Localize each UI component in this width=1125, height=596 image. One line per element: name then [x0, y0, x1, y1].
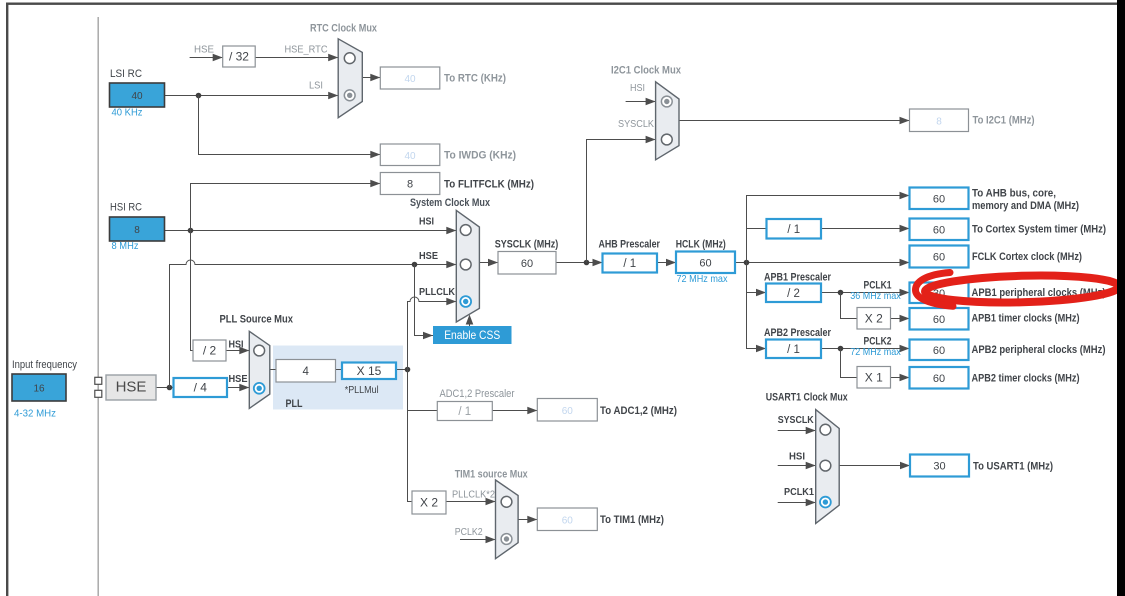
- window right black strip: [1117, 0, 1125, 596]
- source box HSE: [106, 375, 156, 400]
- svg-text:PLL Source Mux: PLL Source Mux: [220, 313, 294, 325]
- svg-text:APB2 Prescaler: APB2 Prescaler: [764, 327, 832, 339]
- wire HCLK to FCLK (net HCLK): [735, 262, 910, 264]
- svg-text:TIM1 source Mux: TIM1 source Mux: [455, 469, 528, 481]
- wire ADC prescaler output: [492, 410, 537, 412]
- svg-text:/ 1: / 1: [623, 258, 636, 270]
- arrowhead into To TIM1 box: [527, 516, 537, 524]
- output box AHB bus value 60: [910, 188, 969, 210]
- junction HSE split: [167, 385, 173, 391]
- svg-text:RTC Clock Mux: RTC Clock Mux: [310, 23, 377, 35]
- radio RTC HSE_RTC (unselected): [344, 53, 355, 64]
- svg-text:APB1 Prescaler: APB1 Prescaler: [764, 272, 832, 284]
- wire X1 output: [891, 377, 910, 379]
- wire Enable CSS to System mux: [469, 316, 471, 327]
- arrowhead into To USART1 box: [900, 462, 910, 470]
- arrowhead into APB2 timer box: [900, 374, 910, 382]
- svg-text:/ 1: / 1: [787, 224, 800, 236]
- radio I2C1 SYSCLK (unselected): [661, 134, 672, 145]
- annotation red ellipse around APB1 peripheral clocks: [916, 273, 1120, 307]
- svg-text:FCLK Cortex clock (MHz): FCLK Cortex clock (MHz): [972, 251, 1082, 263]
- svg-text:HSE_RTC: HSE_RTC: [285, 44, 328, 56]
- arrowhead HSE into PLL source mux: [239, 384, 249, 392]
- svg-text:/ 32: / 32: [229, 50, 249, 64]
- wire divider to PLLMul: [336, 369, 343, 371]
- wire APB1 prescaler output (net PCLK1): [821, 292, 910, 294]
- prescaler /2 (PLL HSI divider): [193, 340, 226, 361]
- svg-text:memory and DMA (MHz): memory and DMA (MHz): [972, 200, 1079, 212]
- junction PCLK1 split: [838, 290, 844, 296]
- svg-text:PCLK2: PCLK2: [455, 526, 483, 538]
- svg-text:4: 4: [303, 366, 310, 378]
- wire SYSCLK to AHB prescaler: [556, 262, 603, 264]
- svg-text:HSI: HSI: [229, 339, 244, 351]
- junction HSE to CSS split: [412, 262, 418, 268]
- svg-text:/ 4: / 4: [194, 381, 208, 395]
- source box HSI RC value 8: [110, 217, 165, 241]
- arrowhead HSE into System mux: [446, 261, 456, 269]
- arrowhead HSI into USART1 mux: [806, 462, 816, 470]
- input frequency box value 16: [12, 374, 66, 401]
- svg-text:To USART1 (MHz): To USART1 (MHz): [973, 461, 1053, 473]
- prescaler /4 (PLL HSE divider): [174, 378, 228, 397]
- box SYSCLK value 60: [498, 252, 556, 275]
- arrowhead into APB1 timer box: [900, 315, 910, 323]
- wire PLLMul output: [396, 369, 408, 371]
- wire X2 output: [891, 318, 910, 320]
- wire PCLK1 down to X2: [841, 293, 858, 319]
- radio TIM1 PCLK2 (selected): [501, 534, 512, 545]
- arrowhead PLLCLK into System mux: [446, 298, 456, 306]
- svg-text:Input frequency: Input frequency: [12, 359, 78, 371]
- svg-text:To AHB bus, core,: To AHB bus, core,: [972, 188, 1056, 200]
- wire LSI to IWDG: [199, 96, 381, 155]
- wire Cortex prescaler output: [821, 228, 909, 230]
- svg-text:HSI: HSI: [419, 216, 434, 228]
- svg-text:To Cortex System timer (MHz): To Cortex System timer (MHz): [972, 224, 1106, 236]
- svg-text:LSI RC: LSI RC: [110, 68, 142, 80]
- arrowhead HSI into PLL source mux: [239, 347, 249, 355]
- wire HSE up to System mux (net HSE): [170, 260, 457, 388]
- output box To IWDG value 40: [380, 144, 440, 166]
- multiplier X2 (TIM1): [412, 491, 446, 514]
- svg-text:X 2: X 2: [420, 496, 438, 510]
- panel top border: [6, 3, 1118, 5]
- svg-text:16: 16: [33, 384, 45, 395]
- wire HSI down to /2 prescaler: [191, 231, 194, 351]
- prescaler ADC1,2 /1: [437, 402, 492, 421]
- svg-text:60: 60: [933, 345, 945, 357]
- multiplier X1 (APB2 timers): [857, 367, 891, 389]
- wire PCLK2 stub to TIM1 mux: [460, 539, 496, 541]
- arrowhead into To I2C1 box: [900, 117, 910, 125]
- wire /2 to PLL source mux: [226, 350, 249, 352]
- arrowhead SYSCLK into USART1 mux: [806, 427, 816, 435]
- arrowhead PCLK1 into USART1 mux: [806, 499, 816, 507]
- svg-text:HCLK (MHz): HCLK (MHz): [676, 239, 726, 251]
- wire AHB prescaler to HCLK: [657, 262, 676, 264]
- svg-text:60: 60: [562, 406, 574, 417]
- arrowhead into APB1 prescaler: [756, 289, 766, 297]
- prescaler APB2 /1: [766, 340, 821, 359]
- svg-text:40 KHz: 40 KHz: [112, 107, 143, 119]
- arrowhead into To RTC box: [370, 74, 380, 82]
- output box APB2 peripheral value 60: [910, 340, 969, 361]
- svg-text:8 MHz: 8 MHz: [112, 240, 139, 252]
- arrowhead into APB1 peripheral box: [900, 289, 910, 297]
- svg-text:USART1 Clock Mux: USART1 Clock Mux: [766, 392, 848, 404]
- svg-text:40: 40: [131, 91, 143, 102]
- mux System Clock Mux: [456, 210, 479, 322]
- junction PLLCLK split: [405, 367, 411, 373]
- svg-text:8: 8: [407, 179, 413, 191]
- wire I2C1 mux output: [679, 120, 910, 122]
- wire /4 to PLL source mux: [227, 387, 249, 389]
- svg-text:X 2: X 2: [865, 311, 883, 325]
- output box To ADC1,2 value 60: [537, 399, 597, 422]
- radio TIM1 PLLCLK*2 (unselected): [501, 496, 512, 507]
- svg-text:PLLCLK: PLLCLK: [419, 286, 455, 298]
- svg-text:60: 60: [562, 515, 574, 526]
- junction LSI split: [196, 93, 202, 99]
- mux I2C1 Clock Mux: [656, 82, 679, 160]
- svg-text:To TIM1 (MHz): To TIM1 (MHz): [600, 514, 664, 526]
- wire HSI stub to USART1 mux: [778, 465, 816, 467]
- svg-text:SYSCLK (MHz): SYSCLK (MHz): [495, 239, 559, 251]
- svg-text:SYSCLK: SYSCLK: [778, 414, 814, 426]
- junction PCLK2 split: [838, 346, 844, 352]
- wire HSI to FLITFCLK: [191, 184, 381, 231]
- PLL multiplier box X15: [342, 363, 396, 380]
- port square upper on HSE input: [95, 377, 102, 384]
- output box APB1 peripheral value 30: [910, 283, 969, 304]
- wire USART1 mux output: [839, 465, 910, 467]
- svg-text:To ADC1,2 (MHz): To ADC1,2 (MHz): [600, 405, 677, 417]
- wire PLLCLK branch to ADC prescaler: [408, 410, 438, 412]
- radio USART1 SYSCLK (unselected): [820, 424, 831, 435]
- svg-text:36 MHz max: 36 MHz max: [850, 290, 901, 302]
- arrowhead into AHB bus box: [900, 192, 910, 200]
- PLL region background: [273, 346, 403, 410]
- arrowhead SYSCLK into I2C1 mux: [646, 136, 656, 144]
- svg-text:APB2 peripheral clocks (MHz): APB2 peripheral clocks (MHz): [972, 344, 1106, 356]
- svg-text:60: 60: [521, 258, 533, 270]
- radio System PLLCLK (selected): [460, 296, 471, 307]
- svg-text:40: 40: [404, 151, 416, 162]
- svg-text:40: 40: [404, 74, 416, 85]
- wire PLLCLK up to System mux: [408, 297, 457, 370]
- svg-text:PLLCLK*2: PLLCLK*2: [452, 489, 495, 501]
- output box APB1 timer value 60: [910, 308, 969, 330]
- junction SYSCLK to I2C1 split: [584, 260, 590, 266]
- wire HSE stub to /32: [190, 57, 223, 59]
- arrowhead into Cortex timer box: [900, 225, 910, 233]
- prescaler Cortex /1: [767, 219, 822, 239]
- svg-text:60: 60: [933, 252, 945, 264]
- output box APB2 timer value 60: [910, 367, 969, 389]
- svg-text:APB1 timer clocks (MHz): APB1 timer clocks (MHz): [972, 313, 1080, 325]
- wire System mux output SYSCLK: [479, 262, 498, 264]
- output box To RTC value 40: [380, 67, 440, 89]
- wire PLLCLK down to TIM1 X2: [408, 370, 413, 502]
- mux USART1 Clock Mux: [816, 410, 840, 524]
- wire HCLK up to AHB bus clock: [747, 196, 910, 263]
- arrowhead into AHB prescaler: [593, 259, 603, 267]
- svg-text:/ 1: / 1: [458, 406, 471, 418]
- wire branch to APB1 prescaler: [747, 292, 767, 294]
- svg-text:To FLITFCLK (MHz): To FLITFCLK (MHz): [444, 179, 534, 191]
- wire branch to Cortex prescaler: [747, 228, 767, 230]
- wire HSE down to Enable CSS: [415, 265, 434, 336]
- svg-text:PLL: PLL: [286, 398, 303, 410]
- svg-text:72 MHz max: 72 MHz max: [850, 346, 901, 358]
- wire /32 to RTC mux (net HSE_RTC): [255, 57, 338, 59]
- arrowhead into /32 box: [213, 54, 223, 62]
- arrowhead into SYSCLK box: [488, 259, 498, 267]
- output box Cortex timer value 60: [910, 219, 969, 241]
- svg-text:/ 2: / 2: [203, 344, 217, 358]
- radio USART1 HSI (unselected): [820, 460, 831, 471]
- arrowhead CSS up into System mux: [466, 315, 474, 325]
- svg-text:ADC1,2 Prescaler: ADC1,2 Prescaler: [440, 388, 515, 400]
- svg-text:8: 8: [936, 116, 942, 127]
- svg-text:PCLK1: PCLK1: [784, 486, 814, 498]
- svg-text:HSI: HSI: [630, 82, 645, 94]
- radio System HSE (unselected): [460, 259, 471, 270]
- svg-text:60: 60: [699, 257, 711, 269]
- arrowhead LSI into RTC mux: [328, 92, 338, 100]
- arrowhead HSE_RTC into RTC mux: [328, 54, 338, 62]
- arrowhead PLLCLK*2 into TIM1 mux: [486, 498, 496, 506]
- arrowhead HSI into I2C1 mux: [646, 98, 656, 106]
- radio RTC LSI (selected): [344, 90, 355, 101]
- PLL input divider box value 4: [276, 360, 336, 383]
- arrowhead PCLK2 into TIM1 mux: [486, 536, 496, 544]
- wire X2 to TIM1 mux (net PLLCLK*2): [446, 501, 496, 503]
- output box To FLITFCLK value 8: [380, 173, 440, 195]
- source box LSI RC value 40: [110, 83, 165, 107]
- wire HSI RC to System mux (net HSI): [165, 230, 457, 232]
- junction HSI split: [188, 228, 194, 234]
- svg-text:60: 60: [933, 314, 945, 326]
- svg-text:LSI: LSI: [309, 80, 323, 92]
- svg-text:SYSCLK: SYSCLK: [618, 118, 654, 130]
- left separator line: [98, 17, 99, 596]
- arrowhead into Enable CSS: [423, 332, 433, 340]
- arrowhead into FLITFCLK box: [370, 180, 380, 188]
- svg-text:To I2C1 (MHz): To I2C1 (MHz): [973, 115, 1035, 127]
- svg-text:8: 8: [134, 225, 140, 236]
- svg-text:/ 2: / 2: [787, 288, 800, 300]
- mux RTC Clock Mux: [338, 39, 362, 118]
- wire PCLK1 stub to USART1 mux: [778, 502, 816, 504]
- wire SYSCLK stub to USART1 mux: [778, 430, 816, 432]
- box HCLK value 60: [676, 252, 735, 274]
- mux TIM1 source Mux: [496, 480, 519, 559]
- svg-text:30: 30: [933, 461, 945, 473]
- wire TIM1 mux output: [518, 519, 537, 521]
- radio I2C1 HSI (selected): [661, 96, 672, 107]
- panel left border: [6, 3, 8, 596]
- svg-text:To RTC (KHz): To RTC (KHz): [444, 73, 506, 85]
- port square lower on HSE input: [95, 390, 102, 397]
- radio PLL HSE (selected): [254, 383, 265, 394]
- prescaler APB1 /2: [766, 284, 821, 303]
- svg-text:HSI: HSI: [789, 451, 805, 463]
- output box To USART1 value 30: [910, 455, 969, 477]
- svg-text:To IWDG (KHz): To IWDG (KHz): [444, 150, 516, 162]
- svg-text:4-32 MHz: 4-32 MHz: [14, 408, 56, 420]
- arrowhead into HCLK box: [666, 259, 676, 267]
- output box To I2C1 value 8: [910, 109, 969, 132]
- wire HSI stub to I2C1 mux: [626, 101, 656, 103]
- svg-text:/ 1: / 1: [787, 344, 800, 356]
- svg-text:AHB Prescaler: AHB Prescaler: [599, 239, 661, 251]
- arrowhead into APB2 prescaler: [756, 345, 766, 353]
- wire PCLK2 down to X1: [841, 349, 858, 378]
- svg-text:60: 60: [933, 373, 945, 385]
- svg-text:60: 60: [933, 224, 945, 236]
- svg-text:HSE: HSE: [116, 379, 147, 396]
- svg-text:System Clock Mux: System Clock Mux: [410, 197, 490, 209]
- mux PLL Source Mux: [249, 331, 269, 408]
- radio USART1 PCLK1 (selected): [820, 497, 831, 508]
- output box FCLK value 60: [910, 246, 969, 268]
- arrowhead into FCLK box: [900, 259, 910, 267]
- svg-text:HSE: HSE: [419, 250, 438, 262]
- radio System HSI (unselected): [460, 225, 471, 236]
- arrowhead HSI into System mux: [446, 227, 456, 235]
- wire PLL source mux to PLL divider: [270, 369, 276, 371]
- wire HCLK down to APB2 prescaler: [747, 263, 767, 349]
- wire LSI RC to RTC mux (net LSI): [165, 95, 339, 97]
- svg-text:X 1: X 1: [865, 370, 883, 384]
- prescaler AHB /1: [603, 254, 658, 273]
- arrowhead into IWDG box: [370, 151, 380, 159]
- output box To TIM1 value 60: [537, 508, 597, 531]
- wire HSE box to /4 prescaler: [156, 387, 174, 389]
- svg-text:HSI RC: HSI RC: [110, 202, 142, 214]
- wire RTC mux output: [362, 77, 380, 79]
- wire SYSCLK up to I2C1 mux: [587, 140, 656, 263]
- svg-text:HSE: HSE: [229, 373, 248, 385]
- prescaler /32 (RTC HSE divider): [223, 46, 256, 67]
- svg-text:I2C1 Clock Mux: I2C1 Clock Mux: [611, 65, 681, 77]
- svg-text:*PLLMul: *PLLMul: [345, 384, 379, 396]
- button Enable CSS: [433, 326, 512, 344]
- svg-text:X 15: X 15: [357, 364, 382, 378]
- svg-text:APB2 timer clocks (MHz): APB2 timer clocks (MHz): [972, 373, 1080, 385]
- svg-text:72 MHz max: 72 MHz max: [677, 273, 729, 285]
- multiplier X2 (APB1 timers): [857, 308, 891, 330]
- junction HCLK split: [744, 260, 750, 266]
- svg-text:HSE: HSE: [194, 44, 214, 56]
- svg-text:Enable CSS: Enable CSS: [444, 328, 500, 342]
- svg-text:60: 60: [933, 193, 945, 205]
- arrowhead into To ADC box: [527, 407, 537, 415]
- radio PLL HSI (unselected): [254, 345, 265, 356]
- arrowhead into APB2 peripheral box: [900, 345, 910, 353]
- wire APB2 prescaler output (net PCLK2): [821, 348, 910, 350]
